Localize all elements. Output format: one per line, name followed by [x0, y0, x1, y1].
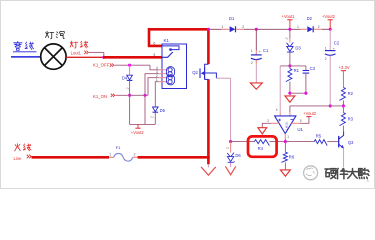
ground (U1 pin2)	[258, 128, 267, 134]
svg-text:D4: D4	[122, 75, 128, 80]
svg-text:K1_ON: K1_ON	[93, 94, 107, 99]
wire R1 to gnd rail	[289, 82, 291, 94]
label 灯泡 (lamp)	[46, 31, 54, 39]
wire node to R1	[289, 66, 291, 69]
watermark logo circle	[304, 166, 318, 180]
resistor R2	[339, 87, 345, 100]
wire K1 pin1 down to D5	[155, 82, 159, 107]
junction D6/R4	[229, 140, 232, 143]
svg-text:+Vout2: +Vout2	[131, 130, 145, 135]
junction C2/divider	[329, 104, 332, 107]
wire K1_OFF	[114, 64, 150, 66]
junction D4/K1_ON	[128, 94, 131, 97]
wire top rail to D1	[208, 28, 221, 30]
svg-text:R6: R6	[289, 154, 295, 159]
resistor R3	[339, 113, 345, 126]
wire junction to R3	[342, 106, 344, 113]
svg-text:R4: R4	[258, 146, 264, 151]
svg-text:R3: R3	[348, 117, 354, 122]
wire live thick red right	[138, 156, 209, 159]
svg-text:K1_OFF: K1_OFF	[93, 63, 110, 68]
junction Lout1	[102, 56, 105, 59]
wire divider tap to op-amp pin3	[290, 105, 344, 107]
frame border	[1, 1, 375, 189]
wire Q3 emitter down	[343, 148, 345, 167]
svg-text:D1: D1	[229, 16, 235, 21]
junction +Vout2/C2	[329, 28, 332, 31]
wire vertical to R4 node	[230, 78, 232, 141]
transistor Q2 (MOSFET)	[199, 68, 201, 78]
junction +Vout1/D3	[288, 28, 291, 31]
wire D2 to +Vout2	[322, 28, 331, 30]
fuse F1 sine symbol	[114, 153, 133, 161]
svg-text:D5: D5	[160, 108, 166, 113]
svg-text:1: 1	[221, 25, 223, 29]
svg-text:2: 2	[134, 153, 136, 157]
junction D3/R1/pin4	[288, 64, 291, 67]
svg-text:D3: D3	[295, 46, 301, 51]
power port arrow (D6)	[225, 167, 236, 175]
wire R5 to Q3 base	[327, 141, 338, 143]
pin 3 K1 stub	[159, 73, 167, 75]
wire top rail D1 to D2	[244, 28, 301, 30]
wire rail to C1	[255, 29, 257, 50]
relay contact (pin6 side)	[162, 46, 179, 50]
svg-text:R2: R2	[348, 91, 354, 96]
power flag +Vout2 (top)	[329, 20, 331, 29]
wire +3.3V to R2	[342, 71, 344, 88]
diode D4	[127, 75, 133, 80]
wire neutral (blue)	[11, 56, 40, 58]
wire lamp to node (thin red)	[66, 56, 104, 58]
svg-text:1: 1	[297, 25, 299, 29]
net label 灯线 / port Lout1	[70, 41, 78, 48]
wire node to C3	[305, 66, 307, 70]
wire pin2 to ground	[262, 123, 271, 127]
junction bus/top rail	[207, 28, 210, 31]
relay coil A (pins 4-3)	[166, 67, 174, 77]
svg-text:1: 1	[109, 153, 111, 157]
highlight box around R4	[248, 136, 277, 156]
svg-text:F1: F1	[116, 145, 121, 150]
svg-text:5: 5	[300, 119, 302, 123]
svg-text:1: 1	[251, 49, 253, 53]
svg-text:LM321: LM321	[285, 121, 289, 130]
svg-text:2: 2	[267, 119, 269, 123]
resistor R6	[281, 152, 287, 162]
resistor R5	[314, 140, 327, 146]
net label 火线 / port Live	[15, 144, 20, 151]
pin 1 K1 stub	[159, 81, 167, 83]
fuse F1	[109, 156, 114, 158]
resistor R1	[286, 69, 292, 82]
wire R2 to junction	[342, 100, 344, 106]
wire Q2 source to comparator net	[216, 77, 230, 79]
wire +Vout2 rail (relay coils)	[130, 123, 156, 125]
wire thick red bus K1 pin6 up and over	[149, 29, 208, 46]
wire C2 down to divider net	[329, 56, 331, 106]
junction R2/R3	[342, 104, 345, 107]
wire C3 to gnd rail	[305, 73, 307, 93]
pin 4 K1 stub	[159, 69, 167, 71]
lamp E1 (circle with X)	[41, 44, 66, 69]
op-amp U1 (comparator, pointing down)	[275, 116, 296, 134]
wire C1 to ground	[255, 64, 257, 83]
wire node to op-amp pin4	[279, 66, 281, 112]
svg-text:1: 1	[156, 78, 158, 82]
junction C3 bottom	[304, 92, 307, 95]
ground (R1/C3)	[285, 96, 295, 102]
svg-text:R1: R1	[294, 68, 300, 73]
wire D4 cathode down to rail	[129, 81, 131, 125]
svg-text:K1: K1	[164, 38, 170, 43]
capacitor C3	[303, 70, 310, 72]
junction U1 out/R4/R6/R5	[284, 140, 287, 143]
svg-text:+Vout2: +Vout2	[322, 14, 336, 19]
wire +Vout2 to C2	[329, 29, 331, 50]
resistor R4	[254, 140, 269, 146]
wire node to R6	[284, 142, 286, 153]
wire R4 to node	[269, 141, 285, 143]
wire pin3 vertical	[289, 106, 291, 112]
watermark text 硬件大熊	[325, 169, 336, 179]
svg-text:Live: Live	[14, 156, 22, 161]
wire D3 to node	[289, 53, 291, 66]
power flag +Vout2 (U1 supply)	[306, 116, 311, 118]
svg-text:C1: C1	[263, 48, 269, 53]
wire live thick red left	[32, 156, 110, 159]
wire stub to live arrow	[207, 164, 209, 167]
wire R3 to Q3 collector	[342, 126, 344, 132]
junction K1_OFF/D4	[128, 64, 131, 67]
ground (R6)	[280, 170, 290, 176]
svg-text:C2: C2	[334, 41, 340, 46]
svg-text:4: 4	[276, 108, 278, 112]
capacitor C1	[251, 54, 262, 56]
svg-text:+Vout1: +Vout1	[282, 14, 296, 19]
relay K1 body	[162, 44, 187, 89]
svg-text:Q3: Q3	[348, 140, 354, 145]
relay armature (pin5 side)	[162, 52, 173, 57]
svg-text:2: 2	[242, 25, 244, 29]
wire K1 pin3 down to +Vout2 rail	[145, 74, 159, 125]
svg-text:D2: D2	[307, 16, 313, 21]
wire thick red bus down to Q2 drain	[207, 29, 210, 64]
wire pin5 to +Vout2 flag	[300, 117, 309, 123]
diode D1	[230, 26, 236, 32]
wire thick red lamp line to K1 pin5	[103, 56, 162, 59]
wire pin1 to R4 node	[284, 138, 286, 141]
junction R1/C3 gnd rail	[288, 92, 291, 95]
svg-text:6: 6	[153, 42, 155, 46]
svg-text:U1: U1	[297, 127, 303, 132]
svg-text:Q2: Q2	[192, 70, 198, 75]
diode D2	[307, 26, 313, 32]
wire to R4	[231, 141, 255, 143]
junction C1	[255, 28, 258, 31]
relay coil B (pins 2-1)	[166, 75, 174, 85]
power flag +Vout1	[289, 20, 291, 29]
svg-text:Lout1: Lout1	[71, 50, 82, 55]
wire node horizontal	[280, 65, 306, 67]
svg-text:Pa: Pa	[285, 37, 289, 41]
junction K1_ON/pin3 wire	[143, 94, 146, 97]
wire gnd rail horizontal	[290, 92, 306, 94]
svg-text:1: 1	[325, 46, 327, 50]
svg-text:2: 2	[251, 61, 253, 65]
zener D3	[287, 42, 294, 46]
pin 2 K1 stub	[159, 77, 167, 79]
ground (C1)	[250, 83, 262, 89]
svg-text:2: 2	[325, 57, 327, 61]
svg-text:2: 2	[318, 25, 320, 29]
svg-text:Pa: Pa	[226, 146, 230, 150]
junction live/bus	[207, 156, 210, 159]
diode D5	[153, 107, 159, 112]
svg-text:C3: C3	[310, 66, 316, 71]
svg-text:Pa: Pa	[151, 115, 155, 119]
wire +Vout1 to D3	[289, 29, 291, 39]
svg-text:1: 1	[287, 135, 289, 139]
wire node to R5	[285, 141, 314, 143]
capacitor C2	[325, 50, 336, 52]
zener D6	[227, 153, 234, 157]
svg-text:+Vout2: +Vout2	[303, 111, 317, 116]
wire thick red bus Q2 source down	[207, 79, 210, 164]
svg-text:R5: R5	[316, 134, 322, 139]
svg-text:D6: D6	[235, 153, 241, 158]
wire Lout1 stub	[89, 51, 104, 53]
svg-text:+3.3V: +3.3V	[339, 65, 350, 70]
power flag +Vout2 (coil rail)	[137, 124, 139, 128]
power port arrow (live net)	[201, 167, 216, 175]
transistor Q3 (NPN)	[338, 136, 340, 148]
wire D4 anode stub	[129, 65, 131, 75]
wire D5 cathode to rail	[154, 112, 156, 124]
svg-text:5: 5	[153, 53, 155, 57]
wire K1_ON	[115, 94, 148, 96]
net label 零线 (neutral)	[14, 41, 22, 50]
wire to D6	[230, 142, 232, 153]
